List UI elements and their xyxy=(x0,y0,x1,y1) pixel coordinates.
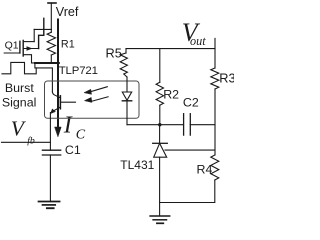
junction dot R2/TL431 xyxy=(158,123,161,126)
svg-text:TLP721: TLP721 xyxy=(59,65,98,77)
shunt regulator TL431 xyxy=(153,125,215,216)
burst signal waveform xyxy=(2,62,36,73)
svg-text:I: I xyxy=(63,113,73,139)
capacitor C1 xyxy=(42,150,60,201)
svg-text:R3: R3 xyxy=(219,70,234,85)
svg-text:TL431: TL431 xyxy=(120,158,154,172)
label Burst Signal xyxy=(2,81,36,110)
optocoupler U1 TLP721 box xyxy=(45,81,140,118)
svg-text:out: out xyxy=(190,34,206,48)
resistor R2 xyxy=(156,49,163,125)
wire Q1 body to Vref node xyxy=(39,18,44,48)
svg-text:C: C xyxy=(76,127,86,142)
current arrow I_C xyxy=(55,127,61,137)
light arrows xyxy=(84,87,108,103)
wire burst node to phototransistor collector xyxy=(35,64,53,92)
svg-text:R2: R2 xyxy=(163,88,179,102)
resistor R1 xyxy=(47,29,55,63)
svg-text:Vref: Vref xyxy=(56,5,79,19)
transistor Q1 xyxy=(4,29,38,63)
resistor R3 xyxy=(211,49,219,155)
resistor R5 xyxy=(120,49,127,77)
resistor R4 xyxy=(160,155,219,203)
wire feedback bus xyxy=(127,124,215,126)
node Vout rail xyxy=(126,38,215,48)
svg-text:C1: C1 xyxy=(65,143,81,157)
svg-text:R5: R5 xyxy=(106,45,122,60)
phototransistor (TLP721 output) xyxy=(50,92,75,150)
svg-text:R1: R1 xyxy=(61,38,75,50)
capacitor C2 xyxy=(184,114,191,135)
svg-text:C2: C2 xyxy=(183,95,199,109)
ground (right) xyxy=(150,216,170,223)
wire V_fb xyxy=(2,141,51,143)
svg-text:Burst: Burst xyxy=(5,81,34,95)
svg-text:R4: R4 xyxy=(197,163,213,177)
wire source bottom bar xyxy=(35,62,59,64)
svg-text:fb: fb xyxy=(27,135,35,146)
LED (TLP721 input) xyxy=(122,77,131,125)
svg-text:V: V xyxy=(11,116,27,140)
wire collector bus (thick vertical) xyxy=(57,20,59,127)
wire top bar (Vref node) xyxy=(34,28,51,30)
svg-text:Signal: Signal xyxy=(2,96,36,110)
svg-text:Q1: Q1 xyxy=(5,40,19,52)
power rail Vref xyxy=(48,3,56,29)
ground (left) xyxy=(39,202,60,209)
